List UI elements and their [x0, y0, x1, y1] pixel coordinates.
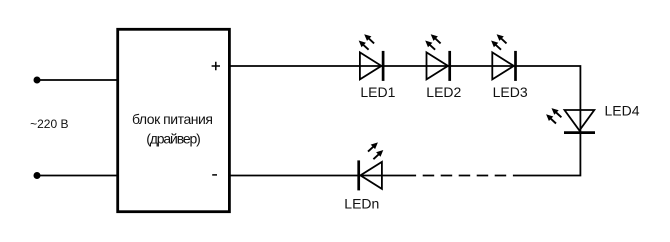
- svg-text:~220 В: ~220 В: [30, 117, 68, 131]
- svg-text:(драйвер): (драйвер): [146, 130, 201, 146]
- svg-text:LED3: LED3: [493, 84, 528, 100]
- svg-text:блок питания: блок питания: [132, 111, 213, 127]
- svg-text:LEDn: LEDn: [344, 195, 379, 211]
- svg-text:LED2: LED2: [426, 84, 461, 100]
- svg-text:LED4: LED4: [605, 103, 640, 119]
- svg-text:LED1: LED1: [360, 84, 395, 100]
